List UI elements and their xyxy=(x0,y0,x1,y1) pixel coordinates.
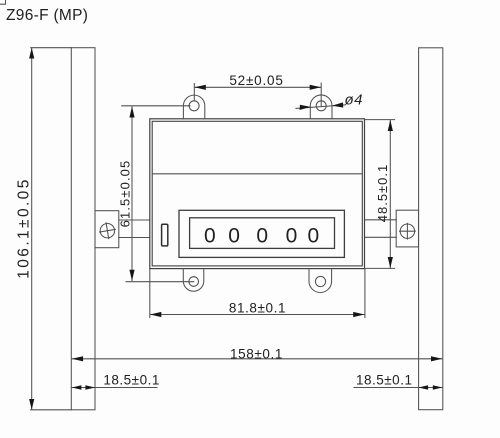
dimension line 106.1 xyxy=(29,48,34,410)
reset slot xyxy=(162,224,168,246)
svg-text:0: 0 xyxy=(204,224,216,247)
right clamp screw head xyxy=(400,223,416,239)
dimension line 81.8 xyxy=(150,312,365,317)
extension line above top-right ear hole (52 dim) xyxy=(320,83,322,106)
svg-text:Z96-F (MP): Z96-F (MP) xyxy=(6,7,88,24)
left slide neck wires xyxy=(119,220,150,238)
right clamp screw tab xyxy=(396,210,418,247)
label 18.5±0.1 right xyxy=(356,373,412,388)
left mounting bracket xyxy=(71,48,95,410)
dimension line 61.5 xyxy=(129,107,134,281)
bracket bottom edge extension line xyxy=(31,409,72,411)
extension line above top-left ear hole (52 dim) xyxy=(193,84,195,101)
dimension line 48.5 xyxy=(388,120,393,268)
svg-text:106.1±0.05: 106.1±0.05 xyxy=(16,177,33,278)
title text Z96-F (MP) xyxy=(6,7,88,24)
label 48.5±0.1 (rotated) xyxy=(375,164,390,223)
top-left ear hole xyxy=(189,101,199,111)
svg-text:18.5±0.1: 18.5±0.1 xyxy=(103,373,159,388)
bottom-right mounting ear xyxy=(309,269,332,293)
right mounting bracket xyxy=(419,48,443,410)
svg-text:52±0.05: 52±0.05 xyxy=(229,73,283,88)
left clamp screw tab xyxy=(95,211,119,248)
svg-text:0: 0 xyxy=(286,224,298,247)
top-left mounting ear xyxy=(183,95,204,119)
diameter leader line xyxy=(296,102,345,110)
title frame corner mark xyxy=(0,0,6,4)
svg-text:158±0.1: 158±0.1 xyxy=(230,346,283,361)
counter digits 00000 xyxy=(204,224,319,247)
bracket top edge extension line xyxy=(31,47,72,49)
right slide neck wires xyxy=(365,220,397,238)
label 18.5±0.1 left xyxy=(103,373,159,388)
label ø4 xyxy=(345,92,363,109)
extension line body bottom-left corner (81.8 dim) xyxy=(149,269,151,318)
display bezel outer xyxy=(179,210,344,257)
counter body inner face xyxy=(152,121,362,266)
top-right mounting ear xyxy=(310,95,332,119)
bottom-left mounting ear xyxy=(183,269,204,292)
bottom-left ear hole xyxy=(189,277,199,287)
dimension line 52 xyxy=(195,85,322,90)
top-right ear hole xyxy=(316,101,326,111)
svg-text:0: 0 xyxy=(256,224,268,247)
svg-text:61.5±0.05: 61.5±0.05 xyxy=(118,160,133,228)
svg-text:48.5±0.1: 48.5±0.1 xyxy=(375,164,390,223)
label 81.8±0.1 xyxy=(229,301,286,316)
label 158±0.1 xyxy=(230,346,283,361)
counter body outer case xyxy=(150,119,365,269)
extension line body bottom right (48.5 dim) xyxy=(365,267,395,269)
svg-text:0: 0 xyxy=(228,224,240,247)
display window inner xyxy=(190,218,335,249)
extension line body top right (48.5 dim) xyxy=(365,119,395,121)
extension line body bottom-right corner (81.8 dim) xyxy=(364,269,366,318)
svg-text:0: 0 xyxy=(308,224,320,247)
body face divider wire xyxy=(152,173,362,175)
label 61.5±0.05 (rotated) xyxy=(118,160,133,228)
bottom-right ear hole xyxy=(315,276,325,286)
left clamp screw head xyxy=(100,223,116,239)
label 106.1±0.05 (rotated) xyxy=(16,177,33,278)
extension line from bottom-left ear hole xyxy=(126,281,194,283)
extension line from top-left ear hole xyxy=(122,105,190,107)
svg-text:81.8±0.1: 81.8±0.1 xyxy=(229,301,286,316)
svg-text:ø4: ø4 xyxy=(345,92,363,109)
label 52±0.05 xyxy=(229,73,283,88)
svg-text:18.5±0.1: 18.5±0.1 xyxy=(356,373,412,388)
dimension line 18.5 left xyxy=(72,385,157,390)
dimension line 158 xyxy=(72,356,443,361)
dimension line 18.5 right xyxy=(354,385,442,390)
